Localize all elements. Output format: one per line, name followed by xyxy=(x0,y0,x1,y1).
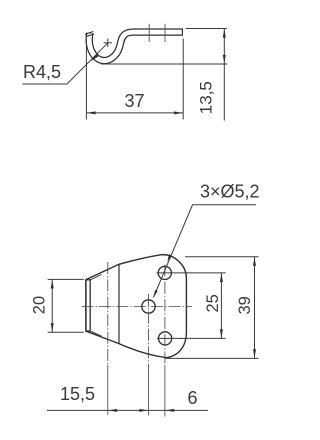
arrow right of 6 xyxy=(166,409,175,412)
hook profile (sheet strip, drawn as dark stroke hollowed by white) xyxy=(89,32,183,61)
arrowhead of R4,5 leader xyxy=(91,54,99,61)
left narrow face (hook tab edge) xyxy=(86,280,90,331)
leader line R4,5 xyxy=(22,43,107,84)
dim 39: extension lines xyxy=(185,256,259,258)
vertical centerline right holes xyxy=(164,265,166,366)
dim 39: arrowheads xyxy=(253,257,256,266)
dimension line 13,5 xyxy=(223,29,225,121)
arrowhead at top hole xyxy=(167,254,171,262)
bottom dimension line (15,5 and 6) xyxy=(47,409,208,411)
center mark + of hook radius xyxy=(104,39,112,47)
arrow left of 15,5 xyxy=(108,409,117,412)
extension line left (37) xyxy=(85,40,87,120)
dimension line 37 xyxy=(86,112,183,114)
svg-text:R4,5: R4,5 xyxy=(23,62,61,82)
horizontal centerline top hole + extension (25) xyxy=(157,272,226,274)
arrowhead at middle hole xyxy=(153,290,157,298)
fold centerline (dash-dot) xyxy=(107,262,109,365)
dim 39: dimension line xyxy=(254,257,256,359)
hole top right xyxy=(158,266,171,279)
hole centerline tick (right, x=165) xyxy=(164,24,166,42)
fold line (solid) xyxy=(118,264,120,343)
extension line right (37) xyxy=(182,39,184,120)
svg-text:15,5: 15,5 xyxy=(60,384,95,404)
svg-text:20: 20 xyxy=(31,296,49,314)
arrowheads 37 xyxy=(87,111,96,114)
dim 25: dimension line xyxy=(220,273,222,339)
svg-text:25: 25 xyxy=(204,294,222,312)
svg-text:37: 37 xyxy=(125,91,145,111)
extension line top (13,5) xyxy=(186,28,227,30)
bend tangent line top xyxy=(90,275,101,280)
horizontal centerline xyxy=(82,306,193,308)
svg-text:3×Ø5,2: 3×Ø5,2 xyxy=(200,182,260,202)
dim 20: extension lines xyxy=(48,278,84,280)
svg-text:6: 6 xyxy=(188,388,198,408)
dim 25: arrowheads xyxy=(220,273,223,282)
svg-text:39: 39 xyxy=(236,296,254,314)
plate outline xyxy=(86,255,186,358)
hole centerline tick (left, x=149) xyxy=(148,24,150,42)
dim 20: arrowheads xyxy=(51,280,54,289)
horizontal centerline bottom hole + extension (25) xyxy=(157,337,226,339)
arrowheads 13,5 xyxy=(223,29,226,38)
svg-text:13,5: 13,5 xyxy=(197,81,216,114)
hole bottom right xyxy=(159,332,172,345)
vertical centerline middle hole xyxy=(148,294,150,365)
dim 20: dimension line xyxy=(51,279,53,332)
leader 3xO5,2 xyxy=(153,205,256,298)
hook tip end cap xyxy=(85,32,94,37)
arrow right of 15,5 / left of 6 xyxy=(139,409,148,412)
extension line bottom (13,5) tangent to hook bottom xyxy=(101,63,227,65)
bend tangent line bottom xyxy=(90,331,101,336)
hole center (middle) xyxy=(142,300,155,313)
